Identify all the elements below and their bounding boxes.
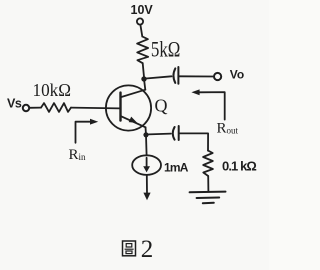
svg-text:10V: 10V <box>131 3 154 17</box>
svg-text:2: 2 <box>141 236 154 263</box>
svg-text:10kΩ: 10kΩ <box>33 80 72 100</box>
svg-text:Vs: Vs <box>7 97 22 111</box>
svg-text:0.1 kΩ: 0.1 kΩ <box>222 158 256 173</box>
svg-text:Vo: Vo <box>230 68 244 82</box>
svg-text:1mA: 1mA <box>164 161 189 175</box>
svg-text:5kΩ: 5kΩ <box>151 36 181 61</box>
svg-text:Q: Q <box>155 95 168 115</box>
